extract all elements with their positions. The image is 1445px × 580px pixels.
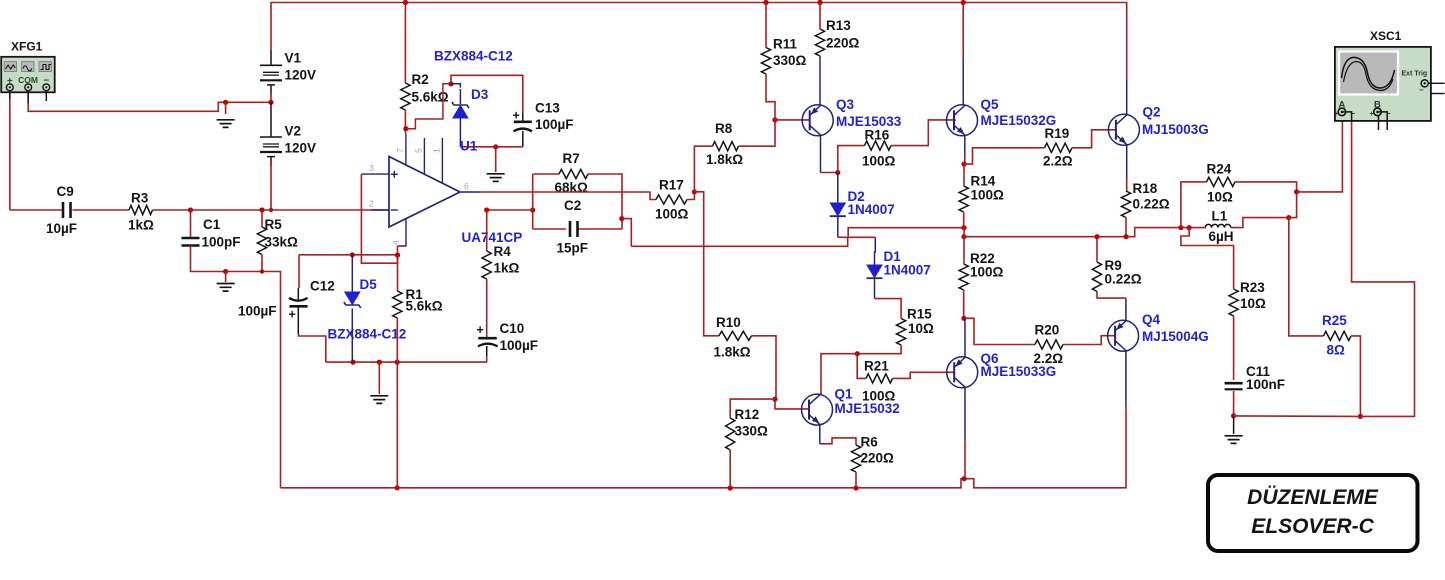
resistor R10 [719, 331, 752, 340]
junction bottom rail R1 [395, 360, 400, 365]
svg-text:R25: R25 [1322, 313, 1347, 328]
wire R24 left riser [1181, 182, 1207, 228]
label U1 [460, 139, 478, 154]
label R24 value [1207, 190, 1233, 205]
wire R14 bottom lead [963, 212, 965, 228]
label V2 [285, 123, 302, 138]
junction U1 ground rail [493, 144, 498, 149]
svg-text:ELSOVER-C: ELSOVER-C [1251, 515, 1374, 538]
label R12 [735, 407, 760, 422]
label UA741CP [462, 230, 523, 245]
label R23 value [1240, 296, 1266, 311]
label C1 [203, 217, 221, 232]
svg-text:5: 5 [414, 148, 424, 153]
svg-text:10µF: 10µF [46, 221, 77, 236]
label R7 [563, 151, 580, 166]
junction R5 bottom [260, 269, 264, 273]
transistor Q6 MJE15033G PNP [947, 357, 978, 388]
label R17 value [655, 207, 689, 222]
wire R1 top lead [397, 255, 399, 291]
label XFG1 [11, 40, 43, 54]
svg-text:100Ω: 100Ω [970, 265, 1004, 280]
junction L1 left b [1187, 225, 1192, 230]
wire V1 to V2 node [270, 92, 272, 102]
label L1 [1212, 209, 1228, 224]
resistor R21 [866, 374, 893, 383]
label R8 [715, 121, 733, 136]
diode D2 1N4007 [830, 173, 846, 238]
op-amp pin 2 lead [371, 209, 389, 211]
op-amp U1 triangle [389, 157, 460, 228]
junction D3 cathode node [448, 81, 453, 86]
junction R5 top [259, 207, 264, 212]
junction bottom bus Q6 [962, 476, 967, 481]
svg-text:Ext Trig: Ext Trig [1402, 71, 1428, 78]
junction R25 riser top [1286, 215, 1291, 220]
label R13 [826, 18, 851, 33]
wire block ground stub [378, 362, 380, 394]
wire C1 bottom to ground rail [191, 246, 263, 272]
label Q3 value [836, 114, 902, 129]
wire scope A bend [1342, 112, 1352, 120]
svg-text:D3: D3 [471, 87, 489, 102]
junction bias rail R1 pin4 [395, 253, 400, 258]
wire main input rail [10, 209, 389, 211]
wire R4 node rail [487, 209, 533, 211]
label XSC1 [1370, 29, 1402, 43]
wire R23 to C11 [1233, 316, 1235, 380]
label L1 value [1209, 229, 1234, 244]
pin number 7 [395, 148, 405, 153]
svg-text:Q3: Q3 [836, 97, 855, 112]
transistor Q4 MJ15004G PNP [1108, 320, 1139, 351]
junction C2 tap [619, 216, 624, 221]
wire R21 right to Q6 base [893, 372, 955, 378]
wire C10 bottom lead [486, 346, 488, 362]
label D2 [848, 189, 865, 204]
label R3 value [128, 218, 154, 233]
junction feedback left edge [530, 207, 535, 212]
wire bias bottom rail [326, 361, 487, 363]
label R17 [659, 178, 684, 193]
svg-text:U1: U1 [460, 139, 478, 154]
wire R4 top lead [486, 210, 488, 251]
junction R17 R8 node [692, 189, 697, 194]
wire Q2 emitter down [1126, 145, 1128, 191]
wire node to R10 drop [694, 192, 719, 336]
wire scope A+ wire [1297, 117, 1343, 192]
svg-text:UA741CP: UA741CP [462, 230, 523, 245]
label R23 [1240, 280, 1265, 295]
label R19 [1045, 126, 1070, 141]
label R1 value [406, 299, 443, 314]
svg-text:R11: R11 [773, 37, 798, 52]
wire R25 right lead [1351, 336, 1360, 417]
label C9 value [46, 221, 77, 236]
resistor R24 [1207, 177, 1236, 186]
junction output rail R9 [1094, 234, 1099, 239]
wire feedback box [533, 174, 622, 229]
svg-text:100µF: 100µF [500, 338, 539, 353]
wire R19 right to Q2 base [1072, 130, 1116, 148]
svg-text:1.8kΩ: 1.8kΩ [706, 152, 743, 167]
wire D2 to D1 link [838, 236, 876, 238]
junction R2 pin7 D3 node [403, 126, 408, 131]
wire bottom bus [281, 406, 1127, 488]
junction input ground rail [223, 269, 228, 274]
label scope A [1339, 100, 1346, 111]
wire pin3 riser [361, 174, 397, 263]
capacitor C10 [477, 323, 498, 346]
svg-text:R19: R19 [1045, 126, 1070, 141]
svg-text:10Ω: 10Ω [1240, 296, 1266, 311]
wire R18 bottom lead [1125, 218, 1127, 237]
title box [1208, 475, 1418, 551]
ground output network [1225, 436, 1243, 444]
junction ground rail R25 [1358, 414, 1363, 419]
wire R21 left lead [857, 354, 866, 379]
label R2 value [412, 90, 449, 105]
svg-text:MJE15032: MJE15032 [835, 401, 900, 416]
svg-text:−: − [1419, 86, 1424, 95]
label R22 value [970, 265, 1004, 280]
resistor R7 [559, 169, 588, 178]
svg-text:R5: R5 [265, 217, 283, 232]
wire U1 ground stub [495, 147, 497, 172]
op-amp pin 3 lead [361, 173, 389, 175]
wire scope B stubs [1378, 112, 1388, 130]
svg-text:R15: R15 [907, 307, 932, 322]
resistor R9 [1092, 262, 1101, 291]
label Q4 [1142, 312, 1161, 327]
resistor R18 [1121, 191, 1130, 218]
label Q2 value [1142, 122, 1209, 137]
svg-text:+: + [513, 109, 520, 123]
label R14 [971, 174, 996, 189]
wire bias top rail [299, 254, 398, 256]
wire ground stub [225, 272, 227, 283]
label Q5 [981, 97, 1000, 112]
svg-text:R14: R14 [971, 174, 996, 189]
svg-text:BZX884-C12: BZX884-C12 [434, 49, 513, 64]
wire C11 bottom lead [1233, 391, 1235, 416]
svg-text:7: 7 [395, 148, 405, 153]
ground input filter [217, 284, 235, 292]
junction output rail R18 [1123, 234, 1128, 239]
wire R5 bottom to long drop [262, 255, 281, 488]
wire Q2 collector riser [1126, 80, 1128, 115]
label R3 [131, 191, 149, 206]
wire R4 to C10 [486, 279, 488, 338]
wire C2 tap to lower rail [622, 219, 632, 247]
junction V2 input rail [269, 208, 273, 212]
svg-text:33kΩ: 33kΩ [265, 235, 299, 250]
wire D3 top node to C13 [451, 75, 523, 121]
label R9 [1105, 258, 1122, 273]
wire D3 cathode lead [451, 84, 460, 88]
wire XFG1 + terminal to input node [9, 91, 11, 210]
junction R4 top [484, 207, 489, 212]
resistor R15 [896, 319, 905, 345]
label BZX884-C12 top [434, 49, 513, 64]
wire Q5 emitter down [964, 136, 966, 165]
wire D1 to R15 [875, 299, 902, 319]
svg-text:1kΩ: 1kΩ [494, 261, 520, 276]
label R21 value [862, 389, 896, 404]
transistor Q2 MJ15003G NPN [1108, 114, 1139, 145]
svg-text:R23: R23 [1240, 280, 1265, 295]
svg-text:2: 2 [369, 199, 374, 209]
op-amp pin 7 lead [405, 133, 407, 165]
wire R6 bottom lead [855, 472, 857, 488]
svg-text:C12: C12 [310, 279, 335, 294]
svg-text:+: + [289, 308, 296, 322]
ground U1 supply [487, 174, 505, 182]
svg-text:MJ15004G: MJ15004G [1142, 329, 1209, 344]
wire Ext Trig stubs [1419, 83, 1445, 94]
label Q4 value [1142, 329, 1209, 344]
resistor R20 [1035, 340, 1063, 349]
junction scope A tap [1294, 189, 1299, 194]
resistor R19 [1045, 143, 1073, 152]
label R19 value [1043, 154, 1073, 169]
label C13 value [535, 117, 574, 132]
wire scope A tap to R25 node [1289, 192, 1297, 218]
label C11 value [1246, 377, 1285, 392]
svg-text:V2: V2 [285, 123, 302, 138]
label R2 [412, 72, 429, 87]
inductor L1 [1205, 224, 1231, 227]
transistor Q1 MJE15032 NPN [802, 394, 833, 425]
label R18 value [1133, 197, 1170, 212]
label D1 [884, 249, 902, 264]
resistor R14 [959, 186, 968, 212]
svg-text:R21: R21 [864, 359, 889, 374]
label V1 value [285, 68, 317, 83]
resistor R8 [713, 142, 739, 151]
resistor R13 [815, 29, 824, 56]
junction bias rail D5 [350, 252, 355, 257]
svg-text:2.2Ω: 2.2Ω [1043, 154, 1073, 169]
wire C11 ground stub [1233, 416, 1235, 434]
svg-text:R13: R13 [826, 18, 851, 33]
svg-text:+: + [1370, 111, 1374, 118]
label C13 [535, 101, 560, 116]
svg-text:0.22Ω: 0.22Ω [1105, 272, 1142, 287]
junction bottom rail D5 [350, 360, 355, 365]
svg-text:220Ω: 220Ω [861, 451, 895, 466]
title line 1 [1247, 486, 1379, 509]
wire L1 leads [1189, 218, 1289, 228]
svg-text:R18: R18 [1133, 181, 1158, 196]
resistor R5 [257, 227, 266, 254]
wire R16 riser [838, 146, 865, 173]
svg-text:V1: V1 [285, 51, 302, 66]
resistor R25 [1324, 331, 1352, 340]
label R1 [406, 287, 424, 302]
transistor Q5 MJE15032G NPN [947, 105, 978, 136]
label Ext Trig [1402, 71, 1428, 78]
junction ground rail C11 [1231, 413, 1236, 418]
resistor R4 [482, 251, 491, 279]
diode D1 1N4007 [867, 237, 883, 298]
wire R10 right to Q1 base node [752, 336, 777, 399]
terminal A [1334, 108, 1356, 118]
svg-text:R16: R16 [865, 128, 890, 143]
wire R8 right to Q3 base node [739, 120, 776, 146]
junction C1 tap [188, 207, 193, 212]
label R7 value [555, 180, 589, 195]
label D2 value [848, 202, 895, 217]
wire link to mid rail riser [848, 228, 964, 238]
label R11 [773, 37, 798, 52]
wire R22 bottom lead [963, 290, 965, 318]
junction bottom rail ground [377, 360, 382, 365]
capacitor C12 [289, 298, 308, 322]
svg-text:100Ω: 100Ω [971, 188, 1005, 203]
svg-text:6: 6 [464, 181, 469, 191]
svg-text:6µH: 6µH [1209, 229, 1234, 244]
svg-text:330Ω: 330Ω [735, 424, 769, 439]
wire D3 anode lead [459, 117, 461, 147]
label R14 value [971, 188, 1005, 203]
zener diode D3 [451, 89, 469, 118]
svg-text:Q5: Q5 [981, 97, 1000, 112]
svg-text:220Ω: 220Ω [826, 36, 860, 51]
wire opamp output [481, 192, 656, 200]
instrument XFG1 function generator [1, 57, 55, 93]
wire R13 top lead [819, 3, 821, 30]
svg-text:C1: C1 [203, 217, 221, 232]
label D3 [471, 87, 489, 102]
wire U1 ground rail [460, 146, 522, 148]
junction top bus R13 [817, 0, 822, 5]
label C12 value [238, 304, 277, 319]
wire XFG1 - stub [45, 91, 47, 101]
junction V1 V2 midpoint [268, 100, 273, 105]
svg-text:5.6kΩ: 5.6kΩ [406, 299, 443, 314]
wire Q6 emitter up [964, 318, 966, 357]
ground power supply midpoint [217, 120, 235, 128]
wire R9 top lead [1096, 237, 1098, 263]
instrument XSC1 oscilloscope [1335, 47, 1431, 121]
resistor R6 [851, 445, 860, 472]
op-amp pin 1 lead [441, 138, 443, 183]
label BZX884-C12 bottom [328, 327, 407, 342]
wire feedback rail to link riser [631, 237, 847, 246]
resistor R17 [656, 195, 687, 204]
svg-text:1N4007: 1N4007 [884, 263, 931, 278]
label C10 value [500, 338, 539, 353]
resistor R22 [959, 264, 968, 290]
svg-text:R2: R2 [412, 72, 429, 87]
junction top bus R2 [403, 0, 408, 5]
wire XFG1 COM to ground net [28, 91, 271, 112]
wire mid rail to output rail [963, 228, 965, 237]
junction bottom bus R1 column [395, 485, 400, 490]
label R20 value [1034, 351, 1064, 366]
wire R11 bottom jog to Q3 base [766, 74, 775, 120]
junction top bus Q5 [961, 0, 966, 5]
svg-text:100pF: 100pF [202, 235, 241, 250]
svg-text:8Ω: 8Ω [1327, 343, 1346, 358]
wire R17 right lead [687, 192, 694, 200]
label C2 value [557, 241, 589, 256]
junction bottom bus R6 [853, 485, 858, 490]
svg-text:C13: C13 [535, 101, 560, 116]
label R12 value [735, 424, 769, 439]
resistor R12 [726, 418, 735, 450]
pin number 6 [464, 181, 469, 191]
wire Q3 base lead [775, 119, 810, 121]
wire R22 top lead [963, 237, 965, 264]
label Q1 value [835, 401, 900, 416]
svg-text:Q1: Q1 [835, 387, 854, 402]
label R11 value [773, 53, 807, 68]
svg-text:100nF: 100nF [1246, 377, 1285, 392]
capacitor C9 [61, 202, 71, 218]
wire R12 bottom lead [729, 450, 731, 488]
title line 2 [1251, 515, 1374, 538]
junction D2 top node [835, 170, 840, 175]
svg-text:C9: C9 [57, 184, 74, 199]
wire Q1 emitter to R6 [820, 425, 856, 445]
wire ground rail to scope A- [1234, 112, 1415, 416]
label R4 value [494, 261, 520, 276]
svg-text:R8: R8 [715, 121, 733, 136]
capacitor C2 [570, 221, 578, 237]
resistor R16 [865, 141, 892, 150]
label R20 [1035, 323, 1060, 338]
junction top bus R11 [763, 0, 768, 5]
junction mid rail R14 [961, 225, 966, 230]
svg-text:R20: R20 [1035, 323, 1060, 338]
svg-text:1: 1 [432, 148, 442, 153]
svg-text:R6: R6 [861, 435, 879, 450]
svg-text:100Ω: 100Ω [655, 207, 689, 222]
svg-text:10Ω: 10Ω [1207, 190, 1233, 205]
capacitor C11 [1225, 383, 1243, 389]
capacitor C13 [513, 109, 533, 132]
battery V1 [260, 50, 282, 95]
wire R14 top lead [963, 164, 965, 186]
wire midpoint stub to ground [225, 102, 227, 114]
label C11 [1246, 364, 1271, 379]
wire C1 top lead [190, 210, 192, 238]
label R15 [907, 307, 932, 322]
wire V2 to input rail [270, 160, 272, 210]
wire Q4 emitter riser [1097, 292, 1126, 321]
svg-text:330Ω: 330Ω [773, 53, 807, 68]
label D1 value [884, 263, 931, 278]
svg-text:D5: D5 [360, 277, 378, 292]
wire L1 bottom jog to R23 [1181, 228, 1234, 289]
svg-text:+: + [1334, 111, 1338, 118]
svg-text:XFG1: XFG1 [11, 40, 43, 54]
svg-text:R10: R10 [716, 315, 741, 330]
svg-text:R24: R24 [1207, 162, 1232, 177]
label scope B [1374, 100, 1381, 111]
label R24 [1207, 162, 1232, 177]
svg-text:R17: R17 [659, 178, 684, 193]
junction output rail R22 [961, 234, 966, 239]
op-amp pin 5 lead [423, 138, 425, 174]
svg-text:1kΩ: 1kΩ [128, 218, 154, 233]
pin number 4 [391, 240, 401, 245]
wire C12 bottom to block rail [298, 306, 326, 362]
svg-text:10Ω: 10Ω [908, 321, 934, 336]
label Q3 [836, 97, 855, 112]
